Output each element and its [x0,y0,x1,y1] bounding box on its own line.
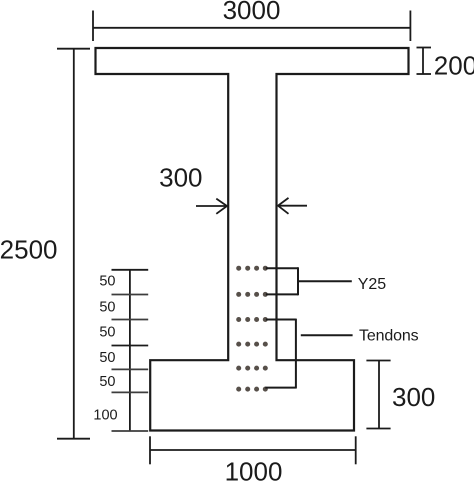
svg-text:300: 300 [392,382,435,412]
tendon dots (6 rows x 4 cols) [236,266,268,392]
svg-text:200: 200 [434,51,474,81]
I-beam cross-section outline [96,48,409,431]
bar spacing dimension stack (50x5 + 100) [112,270,149,431]
svg-text:50: 50 [99,325,115,341]
svg-text:3000: 3000 [223,0,281,25]
svg-text:Tendons: Tendons [359,327,419,344]
svg-text:300: 300 [159,162,202,192]
svg-text:50: 50 [99,274,115,290]
dimension 1000 (bottom flange width) [150,436,356,464]
Tendons callout bracket [265,319,352,389]
dimension 3000 (top flange width) [93,11,410,42]
dimension 300 (web width arrows) [196,198,307,214]
svg-text:50: 50 [99,300,115,316]
dimension 300 (bottom flange depth) [366,361,390,429]
Y25 callout bracket [266,267,352,295]
svg-text:Y25: Y25 [358,276,387,293]
svg-text:100: 100 [93,408,117,424]
dimension 200 (flange thickness) [417,48,432,75]
svg-text:2500: 2500 [0,235,58,265]
svg-text:50: 50 [99,374,115,390]
dimension 2500 (overall height) [57,49,90,439]
svg-text:50: 50 [99,350,115,366]
svg-text:1000: 1000 [225,457,283,482]
